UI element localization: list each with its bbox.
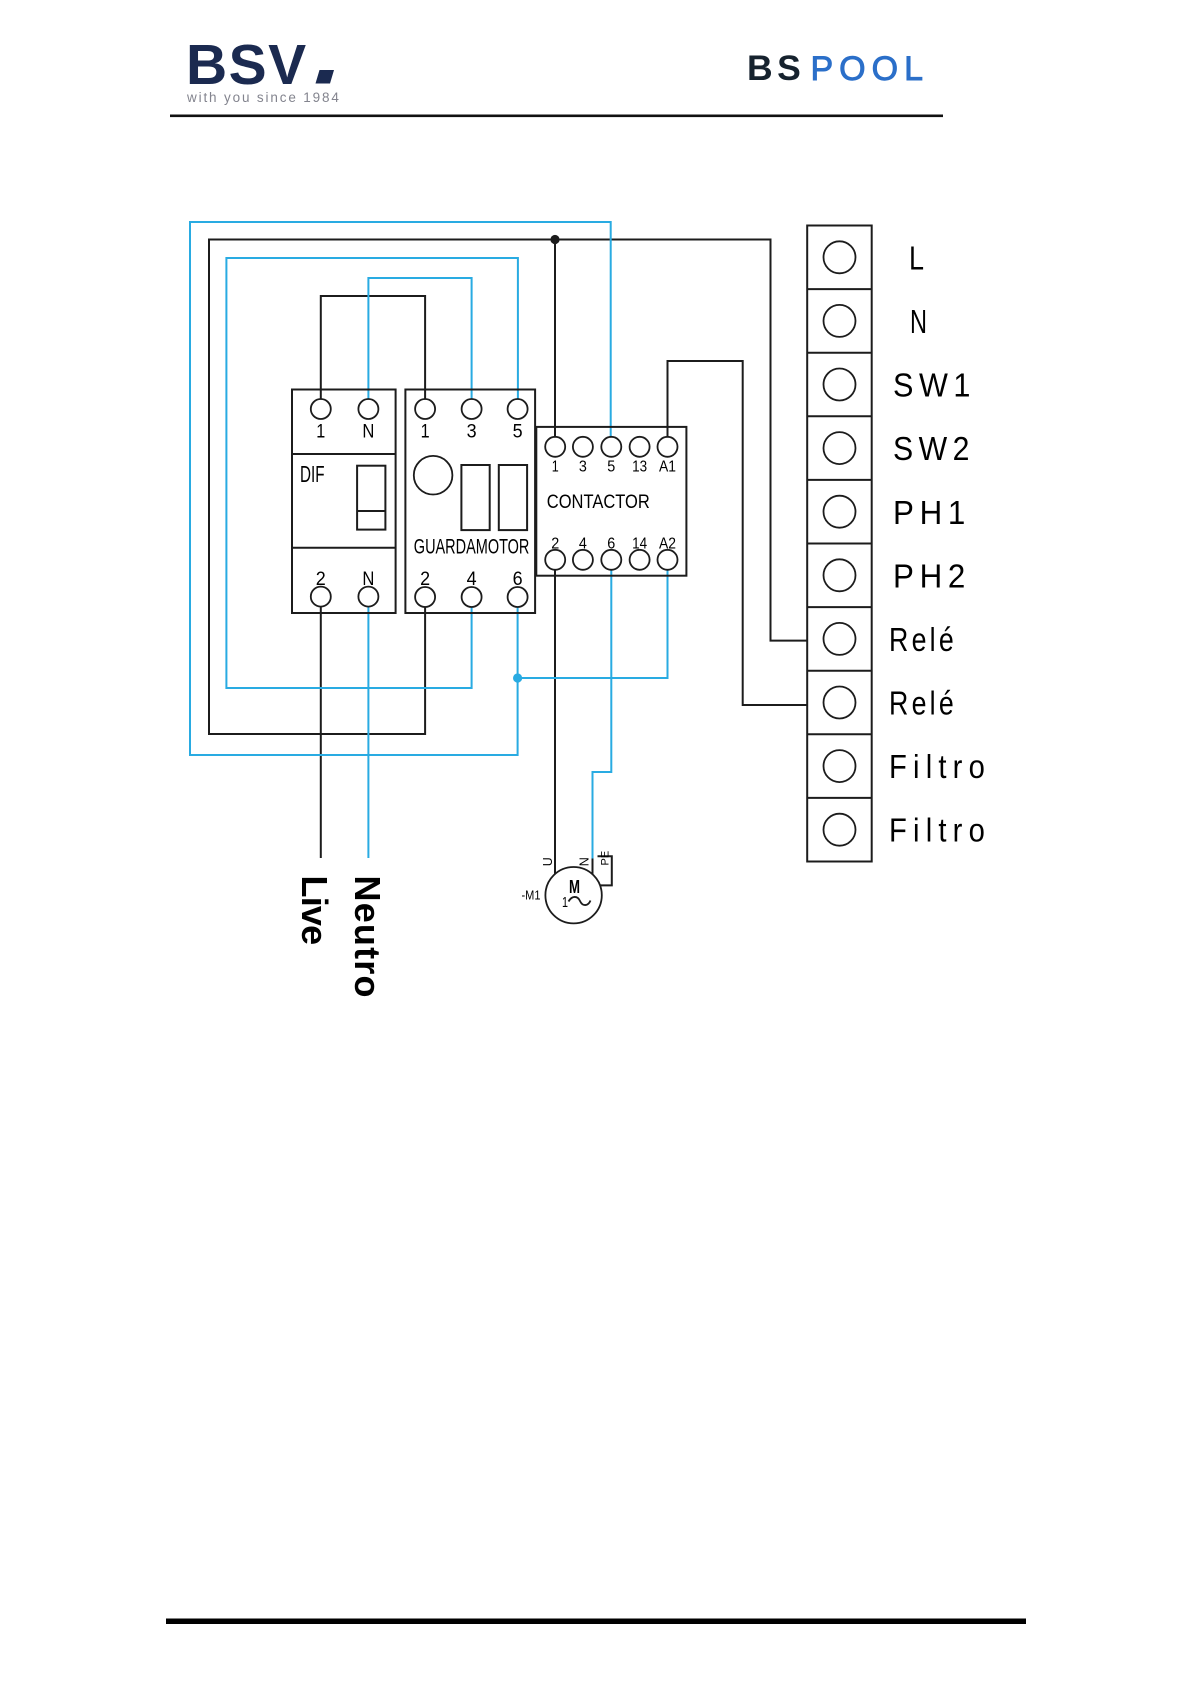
svg-text:Relé: Relé — [889, 685, 957, 722]
svg-text:A1: A1 — [659, 459, 676, 476]
breaker DIF box — [292, 390, 396, 614]
svg-text:1: 1 — [562, 894, 568, 911]
svg-text:DIF: DIF — [300, 461, 325, 487]
svg-text:5: 5 — [513, 422, 523, 443]
svg-text:Filtro: Filtro — [889, 748, 991, 785]
motor-protector GUARDAMOTOR box — [405, 390, 535, 614]
DIF switch lever — [357, 466, 385, 530]
terminal L screw — [824, 241, 856, 273]
svg-text:U: U — [541, 857, 555, 866]
svg-text:13: 13 — [632, 459, 647, 476]
logo BSV wordmark — [186, 33, 334, 97]
svg-text:5: 5 — [607, 459, 615, 476]
contactor terminal 13 — [630, 437, 650, 457]
contactor terminal A2 — [658, 550, 678, 570]
GM terminal 3 top — [462, 399, 482, 419]
svg-text:1: 1 — [552, 459, 559, 476]
svg-text:BS: BS — [747, 48, 805, 88]
junction dot node on top rail — [550, 235, 559, 244]
svg-text:GUARDAMOTOR: GUARDAMOTOR — [414, 536, 530, 559]
svg-text:POOL: POOL — [811, 50, 929, 88]
svg-text:PE: PE — [600, 851, 612, 866]
terminal Filtro1 screw — [824, 750, 856, 782]
wire: cyan loop GM pin5 -> top -> left -> bottom -> GM pin4 — [226, 258, 518, 688]
svg-text:Filtro: Filtro — [889, 812, 991, 849]
svg-text:BSV: BSV — [186, 33, 308, 97]
wire: cyan DIF N bottom down to Neutro — [367, 607, 369, 858]
wire: black main loop GM2 -> bottom -> left -> top rail -> Rele1 — [209, 240, 807, 735]
wire: cyan branch junction to CONTACTOR A2 — [518, 570, 668, 678]
terminal Rele2 screw — [824, 687, 856, 719]
terminal strip outline — [807, 226, 872, 862]
contactor terminal 2 — [545, 550, 565, 570]
wire: black DIF pin1 to GUARDAMOTOR pin1 bridge — [321, 296, 425, 399]
svg-text:N: N — [578, 857, 592, 866]
GM terminal 6 bottom — [508, 587, 528, 607]
svg-text:with you since 1984: with you since 1984 — [186, 90, 341, 105]
wire: black CONTACTOR A1 to Rele2 — [668, 361, 808, 705]
svg-text:PH1: PH1 — [893, 494, 971, 531]
contactor terminal A1 — [658, 437, 678, 457]
DIF terminal N bottom — [358, 587, 378, 607]
svg-text:Live: Live — [294, 876, 335, 945]
svg-text:SW2: SW2 — [893, 430, 975, 467]
terminal Rele1 screw — [824, 623, 856, 655]
DIF terminal N top — [358, 399, 378, 419]
GM terminal 2 bottom — [415, 587, 435, 607]
svg-text:1: 1 — [421, 422, 430, 443]
contactor terminal 14 — [630, 550, 650, 570]
svg-text:1: 1 — [316, 422, 325, 443]
terminal N screw — [824, 305, 856, 337]
GM terminal 4 bottom — [462, 587, 482, 607]
contactor terminal 3 — [573, 437, 593, 457]
terminal SW1 screw — [824, 369, 856, 401]
terminal PH1 screw — [824, 496, 856, 528]
wire: black DIF pin2 down to Live — [320, 607, 322, 858]
svg-text:L: L — [909, 240, 924, 277]
header rule — [170, 115, 943, 118]
terminal PH2 screw — [824, 559, 856, 591]
DIF terminal 1 top — [311, 399, 331, 419]
svg-text:N: N — [910, 303, 927, 340]
wire: black branch top rail to CONTACTOR pin 1 — [554, 240, 556, 437]
GM switch rectangle 2 — [499, 465, 527, 530]
GM terminal 1 top — [415, 399, 435, 419]
svg-text:N: N — [362, 422, 374, 443]
GM terminal 5 top — [508, 399, 528, 419]
motor M1 body circle — [545, 867, 601, 923]
footer rule — [166, 1619, 1026, 1625]
wire: black stub into motor N terminal — [592, 859, 594, 875]
wire: cyan outer loop CONTACTOR pin5 -> top -> left -> bottom -> GM pin6 — [190, 222, 611, 755]
wire: black CONTACTOR pin2 down to motor U — [554, 570, 556, 874]
svg-text:CONTACTOR: CONTACTOR — [547, 491, 650, 513]
contactor terminal 6 — [601, 550, 621, 570]
terminal strip dividers — [807, 289, 872, 798]
contactor terminal 5 — [601, 437, 621, 457]
DIF terminal 2 bottom — [311, 587, 331, 607]
svg-text:-M1: -M1 — [522, 888, 541, 903]
contactor box — [536, 427, 686, 576]
svg-text:3: 3 — [467, 422, 477, 443]
GM switch rectangle 1 — [461, 465, 489, 530]
wire: cyan CONTACTOR pin6 to motor N with jog — [593, 570, 612, 859]
GM reset button circle — [414, 456, 453, 495]
terminal SW2 screw — [824, 432, 856, 464]
svg-text:PH2: PH2 — [893, 558, 971, 595]
svg-text:Neutro: Neutro — [347, 876, 388, 999]
svg-text:SW1: SW1 — [893, 367, 976, 404]
contactor terminal 1 — [545, 437, 565, 457]
motor tilde wave — [569, 897, 591, 905]
svg-text:M: M — [569, 877, 580, 897]
cyan junction dot node — [513, 673, 522, 682]
wire: cyan DIF N to GM pin3 bridge — [368, 278, 471, 399]
svg-text:3: 3 — [579, 459, 587, 476]
svg-text:Relé: Relé — [889, 621, 957, 658]
motor PE bracket — [598, 856, 612, 885]
contactor terminal 4 — [573, 550, 593, 570]
terminal Filtro2 screw — [824, 814, 856, 846]
